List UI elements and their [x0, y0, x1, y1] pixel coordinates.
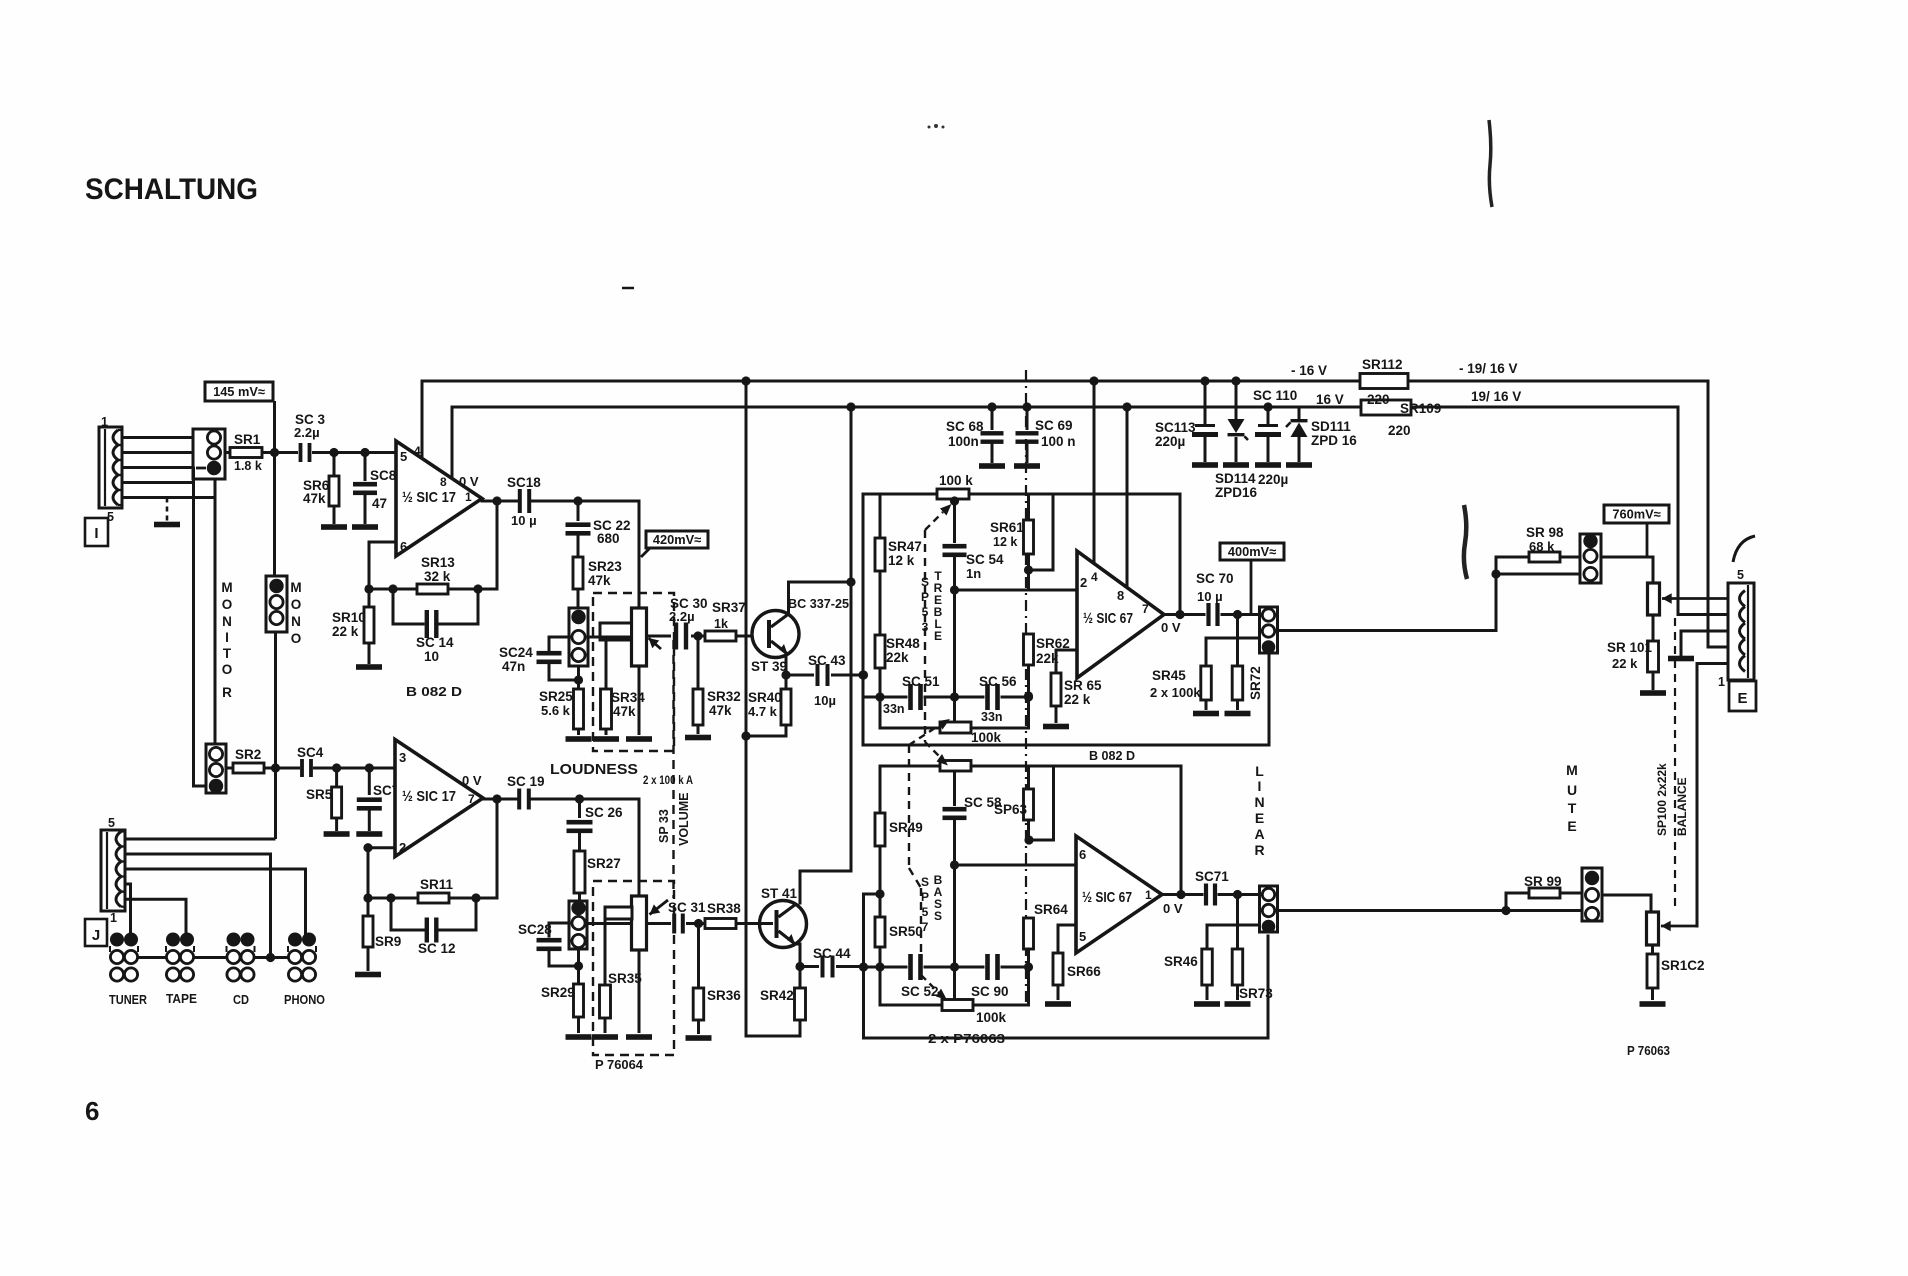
svg-text:4: 4 — [414, 444, 421, 458]
svg-text:68 k: 68 k — [1529, 539, 1555, 554]
svg-text:5.6 k: 5.6 k — [541, 703, 571, 718]
svg-text:P 76063: P 76063 — [1627, 1044, 1670, 1058]
svg-text:SC 19: SC 19 — [507, 774, 545, 789]
svg-text:5: 5 — [922, 605, 929, 619]
svg-text:10: 10 — [424, 649, 439, 664]
svg-text:5: 5 — [1737, 568, 1744, 582]
svg-text:SR35: SR35 — [608, 971, 642, 986]
svg-text:12 k: 12 k — [993, 535, 1017, 549]
svg-text:1: 1 — [101, 415, 108, 429]
svg-text:2 x 100k: 2 x 100k — [1150, 685, 1201, 700]
svg-text:BALANCE: BALANCE — [1675, 777, 1689, 836]
svg-text:0 V: 0 V — [459, 474, 479, 489]
svg-text:SC 43: SC 43 — [808, 653, 846, 668]
svg-text:SR40: SR40 — [748, 690, 782, 705]
svg-text:2.2µ: 2.2µ — [294, 425, 320, 440]
svg-text:220: 220 — [1367, 392, 1390, 407]
svg-text:16 V: 16 V — [1316, 392, 1344, 407]
svg-text:SC24: SC24 — [499, 645, 533, 660]
svg-text:1n: 1n — [966, 566, 981, 581]
svg-text:- 16 V: - 16 V — [1291, 363, 1327, 378]
svg-text:680: 680 — [597, 531, 620, 546]
svg-text:SC 12: SC 12 — [418, 941, 456, 956]
svg-text:TAPE: TAPE — [166, 992, 197, 1006]
svg-text:ST 41: ST 41 — [761, 886, 798, 901]
svg-text:1.8 k: 1.8 k — [234, 459, 262, 473]
svg-text:U: U — [1567, 782, 1577, 798]
svg-text:SR 101: SR 101 — [1607, 640, 1653, 655]
svg-text:M: M — [1566, 762, 1578, 778]
svg-text:SC 56: SC 56 — [979, 674, 1017, 689]
svg-text:SR27: SR27 — [587, 856, 621, 871]
svg-text:E: E — [934, 629, 942, 643]
svg-text:SR1: SR1 — [234, 432, 261, 447]
svg-text:N: N — [222, 614, 232, 629]
svg-text:400mV≈: 400mV≈ — [1228, 544, 1276, 559]
svg-text:SR32: SR32 — [707, 689, 741, 704]
svg-text:A: A — [1254, 826, 1264, 842]
svg-text:SR112: SR112 — [1362, 357, 1403, 372]
svg-text:2: 2 — [1080, 575, 1087, 590]
svg-text:1: 1 — [465, 490, 472, 504]
svg-text:E: E — [1567, 818, 1576, 834]
svg-text:SR64: SR64 — [1034, 902, 1068, 917]
svg-text:6: 6 — [400, 539, 407, 554]
svg-text:22 k: 22 k — [1612, 656, 1638, 671]
svg-text:2.2µ: 2.2µ — [669, 609, 695, 624]
svg-text:SD114: SD114 — [1215, 471, 1256, 486]
svg-text:100k: 100k — [976, 1010, 1007, 1025]
svg-text:E: E — [1737, 690, 1747, 707]
svg-text:T: T — [1568, 800, 1577, 816]
svg-text:VOLUME: VOLUME — [677, 793, 691, 846]
svg-text:S: S — [921, 575, 929, 589]
svg-text:SR5: SR5 — [306, 787, 333, 802]
svg-text:SC 44: SC 44 — [813, 946, 851, 961]
svg-text:33n: 33n — [883, 702, 905, 716]
svg-text:O: O — [222, 662, 233, 677]
svg-text:2 x P76063: 2 x P76063 — [928, 1032, 1005, 1046]
svg-text:100n: 100n — [948, 434, 979, 449]
svg-text:47: 47 — [372, 496, 387, 511]
svg-text:LOUDNESS: LOUDNESS — [550, 761, 638, 778]
svg-text:0 V: 0 V — [1161, 620, 1181, 635]
svg-text:1: 1 — [1718, 675, 1725, 689]
svg-text:12 k: 12 k — [888, 553, 915, 568]
svg-text:SR49: SR49 — [889, 820, 923, 835]
svg-text:SR47: SR47 — [888, 539, 922, 554]
svg-text:SR23: SR23 — [588, 559, 622, 574]
svg-text:7: 7 — [468, 792, 475, 806]
svg-text:8: 8 — [1117, 588, 1124, 603]
svg-text:SR25: SR25 — [539, 689, 573, 704]
svg-text:½ SIC 17: ½ SIC 17 — [402, 489, 456, 506]
svg-text:SC71: SC71 — [1195, 869, 1229, 884]
svg-text:10µ: 10µ — [814, 693, 836, 708]
svg-text:SC18: SC18 — [507, 475, 541, 490]
svg-text:SR45: SR45 — [1152, 668, 1186, 683]
svg-text:R: R — [1254, 842, 1264, 858]
svg-text:4.7 k: 4.7 k — [748, 704, 778, 719]
svg-text:3: 3 — [399, 750, 406, 765]
svg-text:47k: 47k — [613, 704, 636, 719]
svg-text:3: 3 — [922, 620, 929, 634]
svg-text:22 k: 22 k — [332, 624, 359, 639]
svg-text:B 082 D: B 082 D — [1089, 749, 1135, 763]
svg-text:SC 110: SC 110 — [1253, 388, 1297, 403]
svg-text:5: 5 — [1079, 929, 1086, 944]
svg-text:SC8: SC8 — [370, 468, 397, 483]
svg-text:- 19/ 16 V: - 19/ 16 V — [1459, 361, 1518, 376]
svg-text:SR46: SR46 — [1164, 954, 1198, 969]
svg-text:SC 90: SC 90 — [971, 984, 1009, 999]
svg-text:M: M — [290, 580, 301, 595]
svg-text:N: N — [291, 614, 301, 629]
svg-text:SP 33: SP 33 — [657, 809, 671, 843]
svg-text:P 76064: P 76064 — [595, 1058, 643, 1072]
svg-text:1: 1 — [1145, 888, 1152, 902]
svg-text:SC 14: SC 14 — [416, 635, 454, 650]
svg-text:SR37: SR37 — [712, 600, 746, 615]
svg-text:SR109: SR109 — [1400, 401, 1441, 416]
svg-text:BC 337-25: BC 337-25 — [788, 596, 849, 611]
svg-text:SCHALTUNG: SCHALTUNG — [85, 173, 258, 206]
svg-text:SR50: SR50 — [889, 924, 923, 939]
svg-text:10 µ: 10 µ — [511, 513, 537, 528]
svg-text:T: T — [223, 646, 232, 661]
svg-text:100k: 100k — [971, 730, 1002, 745]
svg-text:E: E — [1255, 810, 1264, 826]
svg-text:SC 51: SC 51 — [902, 674, 940, 689]
svg-text:SR 65: SR 65 — [1064, 678, 1102, 693]
svg-text:SR9: SR9 — [375, 934, 401, 949]
svg-text:SC 70: SC 70 — [1196, 571, 1234, 586]
svg-text:SC4: SC4 — [297, 745, 324, 760]
svg-text:SC 54: SC 54 — [966, 552, 1004, 567]
svg-text:SR13: SR13 — [421, 555, 455, 570]
svg-text:33n: 33n — [981, 710, 1003, 724]
svg-text:5: 5 — [400, 449, 407, 464]
svg-text:I: I — [1258, 778, 1262, 794]
svg-text:ZPD16: ZPD16 — [1215, 485, 1258, 500]
svg-text:19/ 16 V: 19/ 16 V — [1471, 389, 1521, 404]
svg-text:SC 68: SC 68 — [946, 419, 984, 434]
svg-text:8: 8 — [440, 475, 447, 489]
svg-text:7: 7 — [922, 920, 929, 934]
svg-text:220µ: 220µ — [1258, 472, 1288, 487]
svg-text:2 x 100 k A: 2 x 100 k A — [643, 775, 693, 787]
svg-text:ST 39: ST 39 — [751, 659, 787, 674]
svg-text:6: 6 — [1079, 847, 1086, 862]
svg-text:100 n: 100 n — [1041, 434, 1076, 449]
svg-text:½ SIC 67: ½ SIC 67 — [1082, 889, 1132, 906]
svg-text:22k: 22k — [886, 650, 909, 665]
svg-text:L: L — [1255, 763, 1264, 779]
svg-text:2: 2 — [399, 840, 406, 855]
svg-text:760mV≈: 760mV≈ — [1612, 507, 1660, 522]
svg-text:SR1C2: SR1C2 — [1661, 958, 1705, 973]
svg-text:M: M — [221, 580, 232, 595]
svg-text:7: 7 — [1142, 602, 1149, 616]
svg-text:SC 26: SC 26 — [585, 805, 623, 820]
svg-text:4: 4 — [1091, 570, 1098, 584]
svg-text:5: 5 — [108, 816, 115, 830]
svg-text:SP100 2x22k: SP100 2x22k — [1655, 763, 1669, 836]
svg-text:TUNER: TUNER — [109, 993, 147, 1007]
svg-text:22 k: 22 k — [1064, 692, 1091, 707]
svg-text:½ SIC 17: ½ SIC 17 — [402, 788, 456, 805]
svg-text:47k: 47k — [303, 491, 326, 506]
svg-text:N: N — [1254, 794, 1264, 810]
svg-text:SR38: SR38 — [707, 901, 741, 916]
svg-text:S: S — [934, 909, 942, 923]
svg-text:SC28: SC28 — [518, 922, 552, 937]
svg-text:SR72: SR72 — [1248, 666, 1263, 700]
svg-text:SR2: SR2 — [235, 747, 261, 762]
svg-text:1: 1 — [110, 911, 117, 925]
svg-text:SR11: SR11 — [420, 877, 454, 892]
svg-text:47k: 47k — [588, 573, 611, 588]
svg-text:SP63: SP63 — [994, 802, 1028, 817]
svg-text:0 V: 0 V — [1163, 901, 1183, 916]
svg-text:220: 220 — [1388, 423, 1411, 438]
svg-text:PHONO: PHONO — [284, 993, 325, 1007]
svg-text:0 V: 0 V — [462, 773, 482, 788]
svg-text:SC 31: SC 31 — [668, 900, 706, 915]
svg-text:O: O — [291, 631, 302, 646]
svg-text:I: I — [94, 525, 98, 542]
svg-text:SR29: SR29 — [541, 985, 575, 1000]
svg-text:47n: 47n — [502, 659, 525, 674]
svg-text:SR 98: SR 98 — [1526, 525, 1564, 540]
svg-text:SR66: SR66 — [1067, 964, 1101, 979]
svg-text:SR61: SR61 — [990, 520, 1024, 535]
svg-text:220µ: 220µ — [1155, 434, 1185, 449]
svg-text:SC 69: SC 69 — [1035, 418, 1073, 433]
svg-text:100 k: 100 k — [939, 473, 973, 488]
svg-text:ZPD 16: ZPD 16 — [1311, 433, 1357, 448]
svg-text:SR10: SR10 — [332, 610, 366, 625]
svg-text:SR48: SR48 — [886, 636, 920, 651]
svg-text:10 µ: 10 µ — [1197, 589, 1223, 604]
svg-text:145 mV≈: 145 mV≈ — [213, 384, 265, 399]
svg-text:420mV≈: 420mV≈ — [653, 532, 701, 547]
svg-text:5: 5 — [922, 905, 929, 919]
svg-text:47k: 47k — [709, 703, 732, 718]
svg-text:P: P — [921, 590, 929, 604]
svg-text:SR42: SR42 — [760, 988, 794, 1003]
svg-text:I: I — [225, 630, 229, 645]
svg-text:SC113: SC113 — [1155, 420, 1196, 435]
svg-text:B 082 D: B 082 D — [406, 684, 462, 699]
svg-text:CD: CD — [233, 993, 249, 1007]
svg-text:6: 6 — [85, 1096, 99, 1126]
svg-text:O: O — [291, 597, 302, 612]
svg-text:SR 99: SR 99 — [1524, 874, 1562, 889]
svg-text:SD111: SD111 — [1311, 419, 1351, 434]
svg-text:1k: 1k — [714, 617, 728, 631]
svg-text:SR36: SR36 — [707, 988, 741, 1003]
svg-text:J: J — [92, 927, 100, 944]
svg-text:S: S — [921, 875, 929, 889]
svg-text:½ SIC 67: ½ SIC 67 — [1083, 610, 1133, 627]
svg-text:32 k: 32 k — [424, 569, 451, 584]
svg-text:R: R — [222, 685, 232, 700]
svg-text:P: P — [921, 890, 929, 904]
svg-text:O: O — [222, 597, 233, 612]
